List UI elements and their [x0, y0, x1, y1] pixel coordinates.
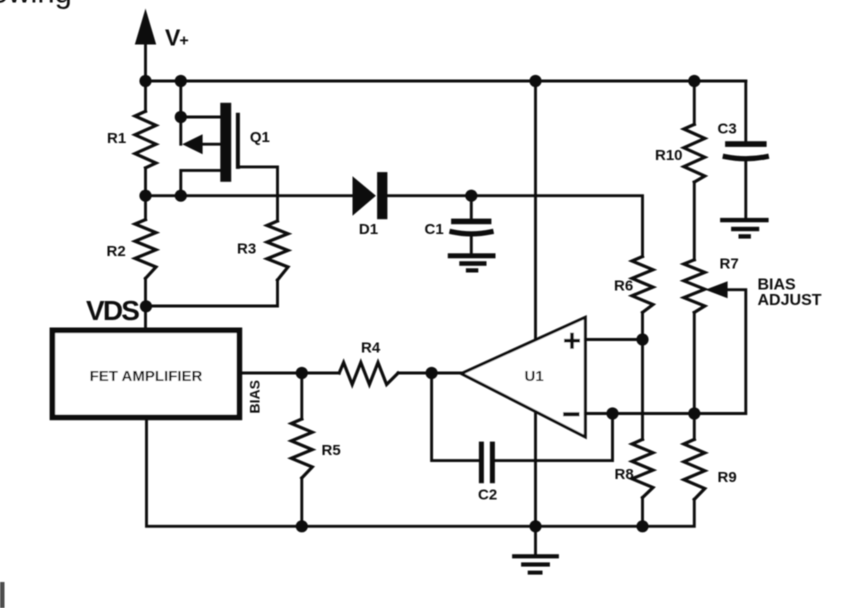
wire: R7 bottom to - input line — [693, 312, 696, 413]
svg-text:R8: R8 — [615, 466, 634, 483]
svg-text:R6: R6 — [614, 278, 633, 295]
ground under C1 — [448, 253, 496, 272]
svg-text:C3: C3 — [718, 121, 737, 138]
svg-text:FET AMPLIFIER: FET AMPLIFIER — [90, 368, 203, 385]
svg-text:C1: C1 — [425, 221, 444, 238]
svg-text:D1: D1 — [359, 221, 378, 238]
svg-text:R9: R9 — [718, 469, 737, 486]
svg-text:R10: R10 — [655, 147, 683, 164]
wire: R3 bottom to VDS node — [146, 280, 278, 306]
node dot: ground rail center — [529, 520, 541, 532]
svg-text:lowing: lowing — [0, 0, 72, 10]
wire: Q1 gate to R3 — [238, 167, 278, 221]
wire: R6 to R8 column — [641, 312, 644, 439]
svg-text:VDS: VDS — [86, 295, 139, 326]
wire: C2 to - input node — [495, 414, 613, 461]
wire: D1 cathode to R6 branch — [386, 196, 643, 257]
FET amplifier block — [52, 330, 239, 417]
node dot: ground rail R8 — [636, 520, 648, 532]
resistor R8 — [632, 439, 653, 497]
wire: left column to R1 — [144, 81, 147, 111]
node dot: V+ rail Q1 branch — [175, 75, 187, 87]
wire: R9 from - input node — [693, 414, 696, 440]
resistor R3 — [267, 221, 288, 280]
resistor R1 — [135, 111, 156, 168]
node dot: R7 bottom / R9 top node — [688, 407, 700, 419]
wire: R8 to ground rail — [641, 498, 644, 527]
wire: op-amp supply line (V+ rail to ground rail) — [534, 81, 537, 526]
resistor R10 — [684, 124, 705, 182]
wire: op-amp + input to R6/R8 node — [585, 338, 642, 341]
node dot: V+ rail R10 — [688, 75, 700, 87]
wire: FET amplifier bias output to R4 — [242, 372, 339, 375]
wire: R7 wiper to - input line — [727, 290, 746, 414]
wire: R5 to ground rail — [300, 478, 303, 526]
capacitor C3 — [718, 81, 767, 218]
svg-text:ADJUST: ADJUST — [758, 292, 822, 309]
diode D1 — [353, 172, 388, 238]
BIAS ADJUST label — [758, 277, 822, 310]
resistor R6 — [632, 257, 653, 313]
svg-text:R3: R3 — [237, 241, 256, 258]
wire: feedback from output node through C2 — [432, 373, 479, 461]
svg-text:BIAS: BIAS — [247, 380, 263, 413]
wire: R5 from bias node — [300, 373, 303, 419]
capacitor C1 — [425, 196, 492, 254]
V+ supply arrow — [135, 9, 156, 45]
potentiometer R7 — [684, 260, 705, 313]
wire: R10 from top rail — [693, 81, 696, 124]
ground under bottom rail — [512, 554, 559, 574]
node dot: C1 junction — [465, 190, 477, 202]
node dot: V+ rail op-amp supply — [529, 75, 541, 87]
resistor R4 — [339, 363, 398, 385]
wire: R2 to FET amplifier box — [144, 278, 147, 327]
svg-text:R7: R7 — [720, 256, 739, 273]
transistor Q1 — [182, 103, 270, 182]
wire: Q1 source to lower node — [181, 170, 221, 195]
wire: op-amp - input line to bias adjust — [585, 412, 745, 415]
wire: R1 to R2 — [144, 168, 147, 220]
R7 wiper arrow — [705, 281, 727, 298]
svg-text:R1: R1 — [107, 130, 126, 147]
wire: FET amplifier bottom to ground rail and bottom rail to R9 — [147, 420, 695, 526]
svg-text:C2: C2 — [478, 487, 497, 504]
node dot: Q1 drain corner — [175, 111, 187, 123]
node dot: Q1 source junction — [175, 190, 187, 202]
node dot: R1/R2 junction — [139, 190, 151, 202]
svg-text:R5: R5 — [322, 442, 341, 459]
wire: R10 to R7 — [693, 182, 696, 260]
node dot: - input feedback node — [606, 407, 618, 419]
op-amp U1 — [461, 317, 585, 437]
wire: top rail — [146, 80, 746, 83]
ground under C3 — [720, 218, 769, 239]
svg-text:R4: R4 — [361, 340, 381, 357]
capacitor C2 — [479, 442, 495, 484]
scrollbar fragment — [0, 582, 5, 608]
node dot: ground rail R5 — [296, 520, 308, 532]
node dot: bias/R5 node — [296, 367, 308, 379]
wire: V+ stem — [144, 40, 147, 81]
resistor R9 — [684, 439, 705, 499]
svg-text:BIAS: BIAS — [758, 277, 797, 294]
wire: R1/R2 node to D1 anode — [146, 194, 354, 197]
node dot: VDS node — [140, 300, 152, 312]
wire: ground stem under rail — [534, 526, 537, 554]
node dot: op-amp output node — [426, 367, 438, 379]
wire: Q1 drain branch from top rail — [181, 81, 221, 144]
wire: R4 to op-amp output node — [398, 372, 462, 375]
node dot: V+ rail left — [139, 75, 151, 87]
node dot: + input / R6-R8 node — [636, 333, 648, 345]
resistor R2 — [135, 220, 156, 279]
svg-text:Q1: Q1 — [250, 129, 270, 146]
svg-text:R2: R2 — [107, 243, 126, 260]
resistor R5 — [291, 419, 312, 478]
svg-text:U1: U1 — [525, 368, 544, 385]
svg-text:V+: V+ — [165, 25, 189, 51]
